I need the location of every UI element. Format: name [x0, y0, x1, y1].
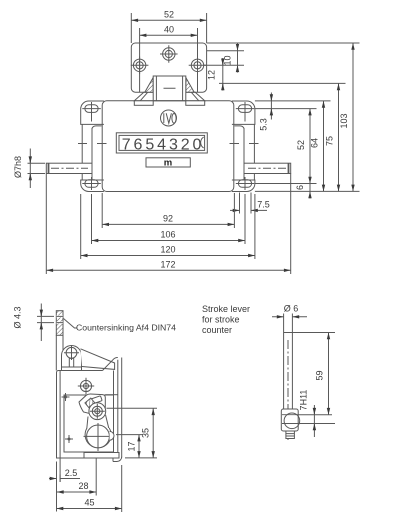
svg-text:Stroke lever: Stroke lever	[202, 304, 250, 314]
svg-text:28: 28	[78, 481, 88, 491]
side flange plate	[113, 358, 122, 462]
IVO logo	[161, 110, 177, 126]
svg-text:106: 106	[160, 230, 175, 240]
pivot block	[281, 409, 299, 431]
side bump right	[110, 431, 114, 440]
slot hole top-right	[236, 102, 255, 122]
svg-text:0: 0	[193, 137, 202, 154]
m unit box	[146, 158, 190, 169]
svg-text:120: 120	[160, 245, 175, 255]
svg-text:40: 40	[164, 25, 174, 35]
svg-text:45: 45	[84, 498, 94, 508]
dim 6 vertical right	[295, 184, 310, 199]
stroke lever label	[202, 304, 250, 335]
dim 106 bottom	[92, 194, 246, 244]
ratchet wheel middle	[89, 403, 106, 420]
lever wedge on body top	[81, 349, 115, 370]
lever pivot dome	[62, 345, 82, 370]
clamp wedge right hatched	[186, 78, 194, 93]
threaded nub	[286, 431, 295, 439]
svg-text:12: 12	[207, 70, 217, 80]
dim 92 bottom	[102, 193, 234, 228]
bottom foot	[84, 453, 119, 459]
dim 35 side	[107, 408, 158, 458]
svg-text:Ø 4.3: Ø 4.3	[13, 306, 23, 328]
dim 120 bottom	[81, 194, 255, 259]
ratchet pawl housing	[79, 394, 118, 416]
dim 52 vertical right	[296, 109, 310, 184]
centering cross lower	[65, 435, 73, 443]
dim 59	[292, 333, 335, 415]
funnel flare trapezoid	[134, 92, 204, 101]
centering dashes mid height	[78, 143, 259, 145]
dim 64 vertical right	[310, 101, 324, 191]
dim 103 vertical right	[339, 43, 353, 191]
svg-text:counter: counter	[202, 325, 232, 335]
dim 10 right	[223, 44, 238, 73]
svg-text:52: 52	[296, 140, 306, 150]
dim 40 top	[140, 25, 198, 93]
side top screw	[78, 378, 94, 394]
funnel foot left	[134, 101, 153, 106]
dim O7h8 left shaft	[13, 149, 45, 189]
svg-text:92: 92	[163, 214, 173, 224]
dim 5.3 right	[259, 93, 272, 131]
dim 45 side	[57, 465, 122, 512]
svg-text:Ø 6: Ø 6	[284, 304, 299, 314]
dim 7H11	[298, 390, 335, 437]
dim 28 side	[57, 459, 96, 496]
svg-text:for stroke: for stroke	[202, 315, 240, 325]
lever arm end plate hatched	[56, 311, 63, 336]
lever arm bar	[56, 335, 63, 370]
svg-text:172: 172	[160, 259, 175, 269]
flange ear top-left	[81, 101, 104, 124]
svg-text:35: 35	[141, 428, 151, 438]
clamp wedge left hatched	[145, 78, 153, 93]
dim 12 right	[207, 58, 223, 91]
inner compartment	[64, 395, 114, 452]
svg-text:2: 2	[181, 137, 190, 154]
svg-text:103: 103	[339, 113, 349, 128]
bracket screw left	[131, 57, 149, 75]
ratchet link connectors	[87, 415, 109, 429]
funnel foot right	[186, 101, 205, 106]
svg-text:5: 5	[145, 137, 154, 154]
stroke wheel lower	[84, 423, 113, 451]
dim O4.3	[13, 304, 55, 342]
svg-text:10: 10	[223, 55, 233, 65]
dim O6	[272, 304, 307, 317]
svg-text:59: 59	[315, 370, 325, 380]
svg-text:3: 3	[169, 137, 178, 154]
baseline and extension lines right side	[204, 43, 360, 191]
flange ear bottom-left	[81, 180, 104, 192]
left shaft	[46, 163, 92, 173]
slot hole bottom-right	[236, 177, 255, 190]
svg-text:7H11: 7H11	[299, 390, 309, 411]
side body outline	[57, 357, 118, 458]
pawl slot	[90, 396, 102, 404]
top mounting bracket plate	[131, 43, 206, 92]
dim 75 vertical right	[325, 83, 339, 191]
right shaft	[244, 163, 291, 173]
dim 17 side	[116, 435, 143, 458]
svg-text:4: 4	[157, 137, 166, 154]
dim 52 top	[131, 10, 206, 44]
leader countersinking	[64, 319, 177, 333]
dim 7.5 bottom right	[230, 193, 270, 214]
clamp block	[153, 76, 186, 101]
bracket screw right	[189, 57, 207, 75]
svg-text:2.5: 2.5	[65, 468, 78, 478]
flange ear bottom-right	[232, 180, 255, 192]
slot hole bottom-left	[82, 177, 101, 190]
svg-text:6: 6	[134, 137, 143, 154]
flange side strip right	[234, 124, 254, 180]
counter window frame	[116, 133, 207, 153]
svg-text:5.3: 5.3	[259, 118, 269, 131]
dim 172 bottom	[46, 174, 290, 275]
svg-text:6: 6	[295, 185, 305, 190]
slot hole top-left	[82, 102, 101, 122]
bracket screw center	[160, 45, 178, 63]
counter digits 7654320	[122, 137, 204, 154]
svg-text:Countersinking Af4 DIN74: Countersinking Af4 DIN74	[76, 323, 176, 333]
svg-text:m: m	[164, 158, 172, 169]
svg-text:7.5: 7.5	[257, 199, 270, 209]
lever rod	[284, 314, 293, 441]
svg-text:17: 17	[127, 441, 137, 451]
pawl hatched	[85, 398, 95, 407]
svg-text:Ø7h8: Ø7h8	[13, 156, 23, 178]
flange side strip left	[82, 124, 101, 180]
svg-text:52: 52	[164, 10, 174, 20]
svg-text:64: 64	[310, 138, 320, 148]
dim 2.5 side	[49, 458, 80, 512]
flange ear top-right	[232, 101, 255, 124]
svg-text:75: 75	[325, 136, 335, 146]
housing front face	[102, 101, 234, 192]
centering cross upper	[62, 393, 70, 401]
svg-text:7: 7	[122, 137, 131, 154]
